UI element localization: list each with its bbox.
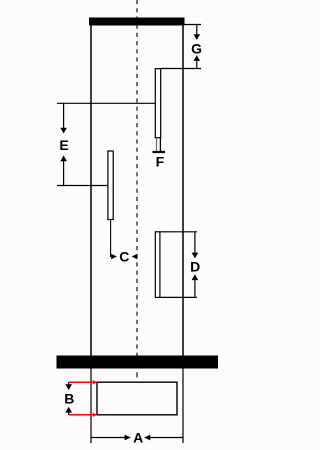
dimension B lower stem <box>68 412 70 415</box>
dimension G top extension line <box>185 24 202 26</box>
dimension D line upper stem <box>194 232 196 253</box>
dimension G line upper stem <box>196 25 198 35</box>
svg-text:F: F <box>156 154 165 170</box>
dimension G bottom extension line <box>161 68 201 70</box>
dimension E line lower stem <box>63 160 65 185</box>
dimension C right-pointing arrow <box>111 254 117 259</box>
element C leader line <box>110 220 112 258</box>
element F stub left line <box>156 138 158 152</box>
dimension D up arrow <box>192 274 199 280</box>
dimension G line lower stem <box>196 60 198 68</box>
dimension B top red arrowhead <box>93 380 97 384</box>
dimension E line upper stem <box>63 103 65 128</box>
svg-text:A: A <box>133 430 143 446</box>
dimension C left-pointing arrow <box>132 254 138 259</box>
dimension E bottom extension line <box>57 185 108 187</box>
element C rod <box>108 151 113 220</box>
dimension E down arrow <box>60 128 67 134</box>
dimension E top extension line <box>57 102 155 104</box>
dimension A right-pointing arrow <box>125 435 131 441</box>
dimension A line left segment <box>91 437 125 439</box>
tube right edge <box>182 26 184 357</box>
top cap <box>89 18 185 26</box>
dimension A line right segment <box>150 437 183 439</box>
dimension G up arrow <box>194 55 201 61</box>
element F sleeve <box>155 69 160 138</box>
element F terminal tick <box>153 151 166 153</box>
svg-text:C: C <box>119 249 129 265</box>
centerline (dashed axis) <box>136 0 138 368</box>
dimension B upper stem <box>68 382 70 385</box>
dimension B down arrow <box>65 384 72 390</box>
dimension B bottom red extension line <box>69 414 94 416</box>
dimension D line lower stem <box>194 279 196 297</box>
dimension A left extension line <box>90 369 92 444</box>
svg-text:E: E <box>59 137 68 153</box>
dimension A right extension line <box>182 369 184 444</box>
svg-text:G: G <box>191 41 202 57</box>
mounting box <box>97 382 177 415</box>
dimension B up arrow <box>65 407 72 413</box>
dimension B top red extension line <box>69 381 94 383</box>
dimension D top extension line <box>160 231 197 233</box>
dimension D bottom extension line <box>160 296 197 298</box>
dimension G down arrow <box>194 34 201 40</box>
centerline last dash above mounting box <box>136 372 138 377</box>
element D <box>155 232 160 298</box>
dimension A left-pointing arrow <box>144 435 150 441</box>
tube left edge <box>90 26 92 357</box>
dimension B bottom red arrowhead <box>93 413 97 417</box>
svg-text:D: D <box>190 259 200 275</box>
bottom flange bar <box>57 356 219 369</box>
dimension E up arrow <box>60 155 67 161</box>
element F stub right line <box>159 138 161 152</box>
svg-text:B: B <box>64 391 74 407</box>
dimension D down arrow <box>192 253 199 259</box>
